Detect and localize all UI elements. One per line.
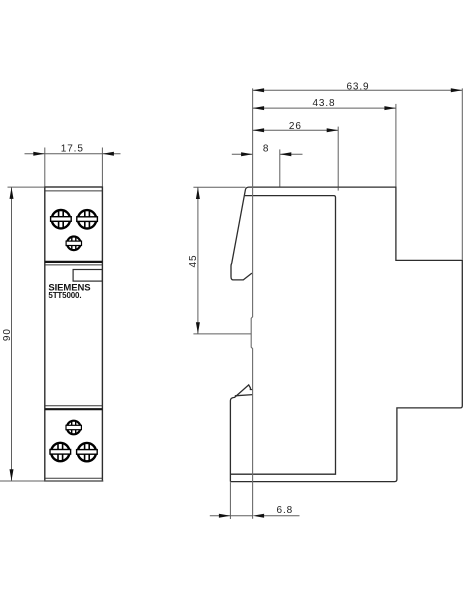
extension tick at 26 on body top	[337, 187, 339, 190]
dimension 43.8 arrowheads	[253, 106, 265, 110]
screw terminal bottom-left	[50, 443, 71, 462]
dimension 90 extension lines	[0, 187, 103, 481]
dimension 17.5 arrowheads	[33, 152, 45, 156]
side view lower DIN claw	[230, 385, 252, 482]
dimension 90 arrowheads	[10, 187, 14, 199]
front lower divider thick line	[45, 408, 103, 410]
svg-text:6.8: 6.8	[276, 505, 293, 516]
svg-text:45: 45	[188, 255, 199, 268]
front top inner line	[45, 190, 103, 192]
side view front face vertical line (with jog)	[251, 88, 252, 518]
front view body outline	[45, 187, 103, 481]
svg-text:43.8: 43.8	[312, 98, 335, 109]
label window rectangle	[73, 270, 102, 282]
side view lower claw inner edge	[235, 395, 253, 396]
svg-text:8: 8	[263, 144, 269, 155]
svg-text:90: 90	[2, 328, 13, 341]
dimension 6.8 line with tails	[210, 515, 253, 517]
side view recessed front panel	[230, 196, 335, 475]
dimension 43.8 line	[253, 107, 396, 109]
dimension 43.8 extension line right	[395, 104, 397, 187]
dimension 90 line	[11, 187, 13, 481]
svg-text:17.5: 17.5	[61, 143, 84, 154]
dimension 26 arrowheads	[253, 128, 265, 132]
screw terminal bottom-center small	[66, 421, 81, 435]
dimension 8 extension line right	[279, 149, 281, 186]
screw terminal top-right	[77, 210, 98, 229]
screw terminal bottom-right	[77, 443, 98, 462]
dimension 17.5 line	[25, 153, 121, 155]
front upper divider thick line	[45, 261, 103, 263]
svg-text:63.9: 63.9	[346, 81, 369, 92]
dimension 17.5 extension lines	[25, 148, 121, 187]
screw terminal top-left	[51, 210, 72, 229]
dimension 45 line	[197, 187, 199, 334]
svg-text:26: 26	[289, 121, 302, 132]
screw terminal top-center small	[66, 236, 81, 250]
svg-text:5TT5000.: 5TT5000.	[48, 291, 81, 300]
dimension 26 extension line right	[337, 127, 339, 187]
front lower divider thin line	[45, 405, 103, 407]
dimension 45 arrowheads	[196, 188, 200, 200]
dimension 8 line with tails	[232, 153, 253, 155]
dimension 63.9 line	[253, 89, 463, 91]
front bottom inner line	[45, 477, 103, 479]
dimension 26 line	[253, 129, 339, 131]
side view upper DIN claw	[231, 187, 252, 280]
front upper divider thin line	[45, 264, 103, 266]
dimension 45 extension lines	[193, 187, 251, 334]
dimension 8 arrowheads (outside)	[241, 152, 253, 156]
dimension 6.8 arrowheads (outside)	[219, 514, 231, 518]
dimension 6.8 extension lines	[210, 482, 300, 519]
dimension 63.9 extension line right	[461, 88, 463, 259]
side view main profile outline	[230, 187, 462, 482]
dimension 63.9 arrowheads	[253, 88, 265, 92]
